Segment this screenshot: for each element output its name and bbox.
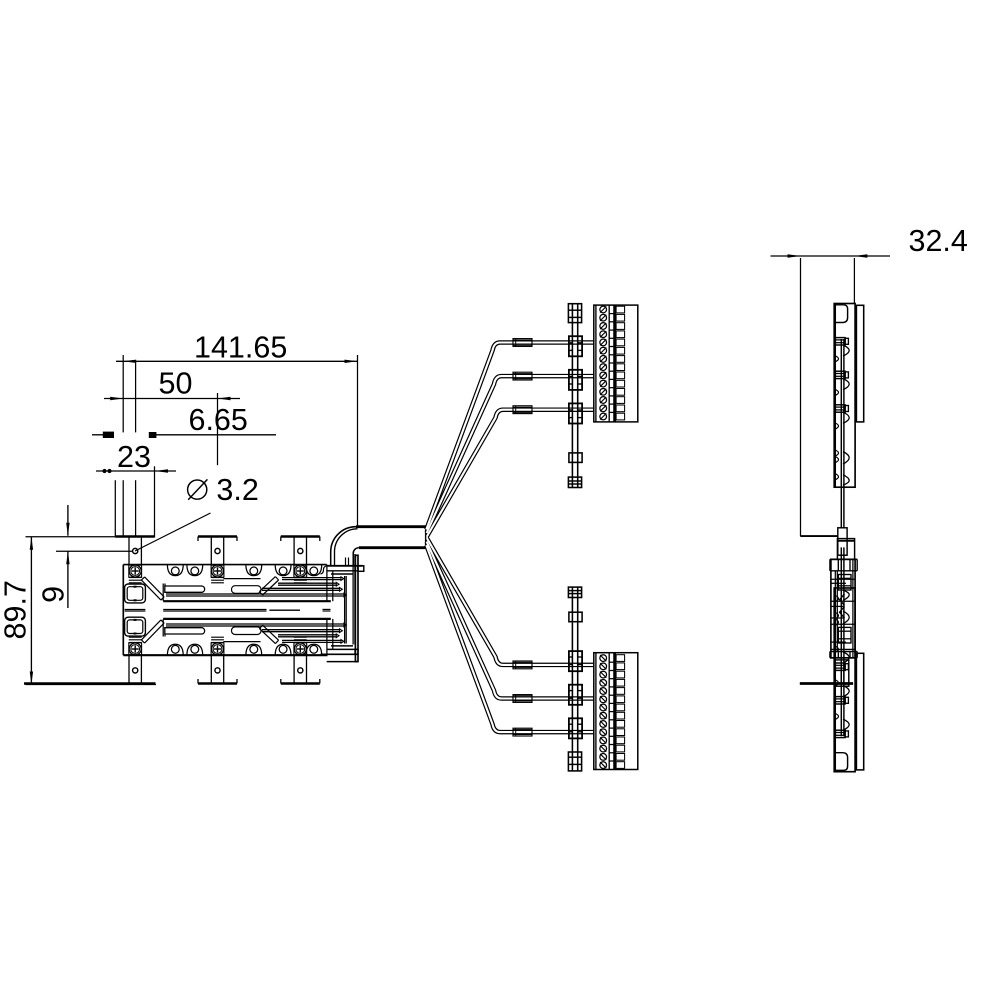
ferrule on wire y=342 (513, 339, 532, 347)
comb slot 1 (616, 306, 625, 313)
terminal block (594, 305, 638, 422)
svg-text:50: 50 (159, 367, 193, 401)
terminal comb bar (614, 305, 616, 422)
comb slot 2 (616, 314, 625, 321)
terminal screw 7 (600, 356, 607, 363)
rail block at row y=376 (569, 370, 582, 390)
side screw row y=375 (835, 371, 849, 390)
slot 2 upper (232, 586, 262, 594)
rail lower block (569, 453, 582, 463)
side body interior (831, 559, 855, 658)
top clamp bracket (321, 558, 364, 575)
comb slot 13 (616, 405, 625, 412)
cable tube horizontal (356, 527, 426, 548)
wire to row y=342 (outline) (426, 343, 594, 530)
ear lug bottom x=283 (275, 644, 291, 655)
ferrule on wire y=376 (513, 372, 532, 380)
dimension 9 (37, 505, 133, 608)
ear lug top x=314 (306, 565, 322, 576)
wire to row y=376 (outline) (427, 376, 594, 533)
cable port y=584 (125, 584, 146, 603)
central channel top line (163, 600, 331, 602)
comb slot 10 (616, 380, 625, 387)
screw at (218,571) (211, 565, 224, 583)
upper branch: wires, rail and terminal block (426, 304, 638, 537)
comb slot 8 (616, 364, 625, 371)
mounting rail vertical (572, 304, 577, 488)
dimension 89.7 (0, 537, 156, 685)
comb slot 9 (616, 372, 625, 379)
side plate (856, 305, 863, 422)
terminal screw 13 (600, 405, 607, 412)
ear lug bottom x=175 (167, 644, 183, 655)
ledge lines (223, 579, 260, 642)
terminal screw 6 (600, 347, 607, 354)
diagonal strut lower-left (141, 620, 164, 643)
mounting tab bottom 3 (281, 655, 320, 683)
rail bottom cap (568, 477, 581, 487)
dimension 32.4 (771, 224, 968, 536)
terminal screw 10 (600, 380, 607, 387)
central channel bottom line (163, 618, 331, 620)
dimension 141.65 (116, 330, 358, 536)
side wall bumps (834, 304, 849, 488)
svg-text:32.4: 32.4 (909, 224, 968, 258)
bottom clamp bracket (321, 646, 359, 662)
ear lug top x=254 (246, 565, 262, 576)
side view: body box (830, 559, 857, 658)
side view: connector section (top) (834, 304, 864, 528)
wire to row y=410 (outline) (427, 410, 594, 537)
slot upper (165, 586, 205, 592)
mounting tab bottom 2 (198, 655, 237, 683)
mounting tab top 1 (129, 537, 141, 565)
terminal screw 11 (600, 388, 607, 395)
side wire pair (841, 339, 844, 528)
body right-end verticals (327, 552, 355, 656)
terminal screw 12 (600, 397, 607, 404)
terminal screw 3 (600, 323, 607, 330)
terminal screw 5 (600, 339, 607, 346)
terminal screw 8 (600, 364, 607, 371)
end plate (355, 555, 358, 661)
side pocket (834, 305, 847, 323)
comb slot 14 (616, 413, 625, 420)
wire bundle channels (166, 577, 346, 643)
dimension dia 3.2 with leader (135, 473, 259, 551)
wire to row y=342 (core) (426, 343, 594, 530)
mounting tab top 3 (281, 537, 320, 565)
rail top cap (568, 304, 581, 323)
side view: top tab (837, 539, 854, 560)
column extension lines (115, 466, 154, 537)
lower branch (mirror of upper) (426, 538, 638, 771)
main harness body outline (123, 565, 327, 656)
hub channel verticals (163, 584, 165, 637)
screw at (300,649) (294, 637, 307, 655)
comb slot 5 (616, 339, 625, 346)
screw at (300,571) (294, 565, 307, 583)
screw at (135,571) (129, 565, 142, 583)
svg-text:23: 23 (117, 440, 151, 474)
svg-text:89.7: 89.7 (0, 580, 33, 639)
svg-text:9: 9 (37, 586, 71, 603)
screw at (135,649) (129, 637, 142, 655)
side view: bottom tab (800, 658, 853, 686)
ferrule on wire y=410 (513, 406, 532, 414)
center lines (125, 609, 331, 611)
comb slot 12 (616, 397, 625, 404)
wire to row y=376 (core) (427, 376, 594, 533)
ear lug bottom x=195 (187, 644, 203, 655)
rail block at row y=342 (569, 336, 582, 356)
dimension 6.65 (92, 403, 276, 438)
slot 2 lower (232, 627, 262, 635)
dimension 23 (96, 440, 176, 474)
svg-text:141.65: 141.65 (194, 330, 287, 364)
side screw row y=341 (835, 338, 849, 357)
wire to row y=410 (core) (427, 410, 594, 537)
mounting tab top 2 (198, 537, 237, 565)
dimension 50 (104, 367, 240, 466)
screw at (218,649) (211, 637, 224, 655)
diagonal strut upper-right (259, 577, 278, 595)
comb slot 3 (616, 323, 625, 330)
side view: cable (800, 528, 847, 555)
comb slot 6 (616, 347, 625, 354)
diagonal strut lower-right (259, 625, 278, 643)
svg-text:3.2: 3.2 (216, 473, 258, 507)
ear lug top x=283 (275, 565, 291, 576)
svg-text:6.65: 6.65 (189, 403, 248, 437)
mounting tab bottom 1 (24, 655, 156, 683)
ear lug top x=195 (187, 565, 203, 576)
ear lug top x=175 (167, 565, 183, 576)
ear lug bottom x=254 (246, 644, 262, 655)
comb slot 11 (616, 389, 625, 396)
diagonal strut upper-left (141, 577, 164, 600)
ear lug bottom x=314 (306, 644, 322, 655)
slot lower (165, 628, 205, 634)
terminal screw 9 (600, 372, 607, 379)
comb slot 7 (616, 356, 625, 363)
terminal screw 14 (600, 413, 607, 420)
side connector bottom (mirror) (834, 547, 864, 771)
terminal screw 2 (600, 314, 607, 321)
cable port y=617 (125, 617, 146, 636)
cable elbow (331, 527, 359, 566)
rail block at row y=410 (569, 403, 582, 423)
terminal screw 4 (600, 331, 607, 338)
terminal screw 1 (600, 306, 607, 313)
side screw row y=408 (835, 405, 849, 424)
comb slot 4 (616, 331, 625, 338)
